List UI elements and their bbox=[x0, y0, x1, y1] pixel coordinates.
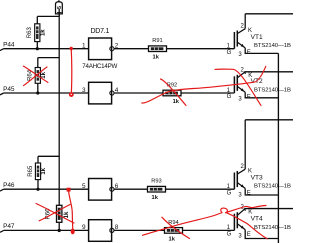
node P44 bbox=[0, 42, 15, 51]
pin 2 label bbox=[115, 43, 119, 50]
resistor R94 bbox=[165, 228, 183, 234]
pin G label of VT1 bbox=[227, 50, 232, 56]
transistor VT2 symbol bbox=[234, 72, 245, 93]
pin K label of VT4 bbox=[248, 210, 252, 216]
label VT3 bbox=[251, 174, 263, 181]
inverter gate DD7 pins 5-6 bbox=[89, 179, 114, 201]
wire R94 to VT4 gate bbox=[183, 229, 235, 231]
wire P46 to gate input bbox=[4, 188, 89, 190]
transistor VT3 symbol bbox=[234, 169, 245, 189]
pin 1 label of VT4 bbox=[227, 225, 231, 231]
svg-text:P45: P45 bbox=[3, 86, 15, 93]
label R64 bbox=[28, 69, 34, 81]
label R65 bbox=[28, 165, 34, 177]
wire R65 top lead bbox=[38, 156, 59, 163]
svg-text:1k: 1k bbox=[153, 55, 160, 61]
value 1k of R93 bbox=[152, 195, 159, 201]
wire emitter bus vertical bbox=[277, 53, 279, 243]
resistor R91 bbox=[149, 46, 167, 52]
node P47 bbox=[0, 223, 15, 232]
label VT1 bbox=[251, 34, 263, 41]
red scribble R94 to VT4 bbox=[166, 206, 267, 239]
resistor R66 bbox=[57, 205, 62, 222]
svg-text:VT4: VT4 bbox=[251, 216, 263, 223]
red cross-out over R64 bbox=[23, 66, 48, 86]
svg-text:1k: 1k bbox=[41, 167, 47, 174]
pin E label of VT4 bbox=[247, 232, 251, 238]
wire VT3 collector rail bbox=[245, 119, 293, 121]
label R66 bbox=[45, 208, 51, 220]
pin 3 label of VT2 bbox=[238, 96, 242, 102]
resistor R64 bbox=[35, 68, 40, 84]
junction R66/P47 bbox=[58, 229, 61, 232]
svg-text:E: E bbox=[247, 232, 251, 238]
part number BTS2140-1B of VT3 bbox=[254, 184, 291, 190]
svg-text:R93: R93 bbox=[151, 179, 161, 185]
value 1k of R92 bbox=[173, 99, 180, 105]
wire VT2 collector rail bbox=[244, 72, 293, 74]
svg-text:VT2: VT2 bbox=[251, 78, 263, 85]
pin 1 label of VT2 bbox=[227, 88, 231, 94]
pin 2 label of VT3 bbox=[240, 164, 244, 170]
transistor VT4 symbol bbox=[234, 209, 245, 231]
svg-text:P47: P47 bbox=[3, 223, 15, 230]
svg-text:P44: P44 bbox=[3, 42, 15, 49]
resistor R92 bbox=[163, 90, 181, 96]
pin E label of VT3 bbox=[247, 191, 251, 197]
part number BTS2140-1B of VT2 bbox=[254, 87, 291, 93]
pin 3 label of VT1 bbox=[238, 52, 242, 58]
pin 6 label bbox=[115, 183, 119, 190]
value 1k of R91 bbox=[153, 55, 160, 61]
value 1k of R66 bbox=[64, 211, 70, 218]
svg-text:3: 3 bbox=[82, 87, 86, 94]
wire R92 to VT2 gate bbox=[181, 92, 234, 94]
wire R64 bottom lead bbox=[37, 83, 39, 93]
label 74AHC14PW bbox=[82, 63, 117, 70]
svg-text:VT1: VT1 bbox=[251, 34, 263, 41]
wire P44 to gate input bbox=[4, 48, 89, 50]
wire R66 bottom lead bbox=[58, 222, 60, 230]
pin 9 label bbox=[82, 224, 86, 231]
wire gate output to R92 bbox=[114, 92, 163, 94]
wire R63 top lead bbox=[37, 16, 59, 23]
wire R93 to VT3 gate bbox=[166, 188, 235, 190]
wire VT4 collector rail bbox=[244, 209, 293, 211]
wire gate output to R94 bbox=[114, 229, 164, 231]
label R94 bbox=[168, 220, 178, 226]
svg-text:1k: 1k bbox=[41, 71, 47, 78]
svg-text:K: K bbox=[248, 168, 252, 174]
wire VT3 collector lead bbox=[244, 120, 246, 169]
label DD7.1 bbox=[91, 28, 110, 35]
pin 3 label of VT4 bbox=[238, 234, 242, 240]
svg-text:BTS2140—1B: BTS2140—1B bbox=[254, 184, 291, 190]
wire gate output to R91 bbox=[114, 48, 148, 50]
junction at R64/net bbox=[36, 91, 39, 94]
value 1k of R63 bbox=[41, 29, 47, 36]
power symbol 5V net bbox=[56, 1, 63, 17]
red cross-out over R66 bbox=[36, 204, 74, 224]
pin 1 label bbox=[82, 43, 86, 50]
svg-text:1k: 1k bbox=[169, 236, 176, 242]
pin E label of VT1 bbox=[247, 50, 251, 56]
wire R64 top lead bbox=[38, 58, 59, 68]
wire VT2 emitter bbox=[245, 92, 278, 98]
value 1k of R64 bbox=[41, 71, 47, 78]
svg-text:R65: R65 bbox=[28, 165, 34, 177]
svg-text:BTS2140—1B: BTS2140—1B bbox=[254, 87, 291, 93]
svg-text:VT3: VT3 bbox=[251, 174, 263, 181]
pin 1 label of VT1 bbox=[227, 44, 231, 50]
svg-text:1k: 1k bbox=[173, 99, 180, 105]
svg-text:1k: 1k bbox=[41, 29, 47, 36]
label R63 bbox=[27, 27, 33, 39]
junction at R63/net bbox=[36, 47, 39, 50]
wire gate output to R93 bbox=[114, 188, 147, 190]
label R92 bbox=[167, 82, 177, 88]
svg-text:1k: 1k bbox=[152, 195, 159, 201]
wire P47 to gate input bbox=[4, 229, 89, 231]
wire VT1 emitter bbox=[245, 48, 278, 54]
node P46 bbox=[0, 182, 15, 191]
svg-text:E: E bbox=[247, 50, 251, 56]
resistor R93 bbox=[148, 186, 166, 192]
svg-text:P46: P46 bbox=[3, 182, 15, 189]
svg-text:5: 5 bbox=[82, 183, 86, 190]
pin 8 label bbox=[115, 224, 119, 231]
wire R91 to VT1 gate bbox=[167, 48, 235, 50]
svg-text:74AHC14PW: 74AHC14PW bbox=[82, 63, 117, 70]
pin K label of VT2 bbox=[248, 73, 252, 79]
transistor VT1 symbol bbox=[234, 29, 245, 49]
wire P45 to gate input bbox=[4, 92, 89, 94]
svg-text:R63: R63 bbox=[27, 27, 33, 39]
svg-text:K: K bbox=[248, 28, 252, 34]
pin E label of VT2 bbox=[247, 95, 251, 101]
pin K label of VT3 bbox=[248, 168, 252, 174]
svg-text:5: 5 bbox=[57, 6, 63, 9]
pin 2 label of VT4 bbox=[240, 204, 244, 210]
wire power rail vertical bbox=[58, 14, 60, 205]
svg-text:G: G bbox=[227, 232, 232, 238]
pin G label of VT3 bbox=[227, 190, 232, 196]
pin 2 label of VT1 bbox=[240, 23, 244, 29]
junction at R65/net bbox=[36, 188, 39, 191]
svg-text:E: E bbox=[247, 95, 251, 101]
svg-text:DD7.1: DD7.1 bbox=[91, 28, 110, 35]
svg-text:G: G bbox=[227, 190, 232, 196]
inverter gate DD7 pins 3-4 bbox=[89, 82, 114, 104]
pin K label of VT1 bbox=[248, 28, 252, 34]
red slash over VT2 bbox=[215, 69, 261, 105]
label VT4 bbox=[251, 216, 263, 223]
svg-text:1k: 1k bbox=[64, 211, 70, 218]
resistor R63 bbox=[35, 24, 40, 42]
pin 3 label bbox=[82, 87, 86, 94]
inverter gate DD7 pins 1-2 bbox=[89, 38, 114, 60]
svg-text:9: 9 bbox=[82, 224, 86, 231]
value 1k of R94 bbox=[169, 236, 176, 242]
svg-text:E: E bbox=[247, 191, 251, 197]
pin 1 label of VT3 bbox=[227, 184, 231, 190]
part number BTS2140-1B of VT1 bbox=[254, 43, 291, 49]
pin 5 label bbox=[82, 183, 86, 190]
svg-text:BTS2140—1B: BTS2140—1B bbox=[254, 225, 291, 231]
wire VT1 collector rail bbox=[245, 13, 293, 15]
wire VT4 emitter bbox=[245, 230, 278, 239]
wire R63 bottom lead bbox=[36, 42, 38, 49]
pin G label of VT4 bbox=[227, 232, 232, 238]
svg-text:BTS2140—1B: BTS2140—1B bbox=[254, 43, 291, 49]
red jumper wire P44-P45 bbox=[69, 47, 74, 97]
pin G label of VT2 bbox=[227, 94, 232, 100]
red wavy line to VT2 bbox=[142, 66, 266, 103]
resistor R65 bbox=[35, 163, 40, 180]
value 1k of R65 bbox=[41, 167, 47, 174]
red jumper wire P46-P47 bbox=[67, 188, 75, 235]
label VT2 bbox=[251, 78, 263, 85]
inverter gate DD7 pins 9-8 bbox=[89, 220, 114, 242]
wire VT3 emitter bbox=[245, 188, 278, 195]
wire VT1 collector lead bbox=[244, 14, 246, 29]
red strike wire over R92 bbox=[161, 79, 187, 106]
svg-text:1: 1 bbox=[82, 43, 86, 50]
red cross-out over R94 bbox=[143, 217, 190, 238]
part number BTS2140-1B of VT4 bbox=[254, 225, 291, 231]
wire R65 bottom lead bbox=[37, 180, 39, 190]
pin 4 label bbox=[115, 87, 119, 94]
pin 3 label of VT3 bbox=[238, 193, 242, 199]
node P45 bbox=[0, 86, 15, 95]
svg-text:G: G bbox=[227, 50, 232, 56]
pin 2 label of VT2 bbox=[240, 68, 244, 74]
svg-text:R91: R91 bbox=[152, 38, 162, 44]
label R91 bbox=[152, 38, 162, 44]
label R93 bbox=[151, 179, 161, 185]
svg-text:G: G bbox=[227, 94, 232, 100]
